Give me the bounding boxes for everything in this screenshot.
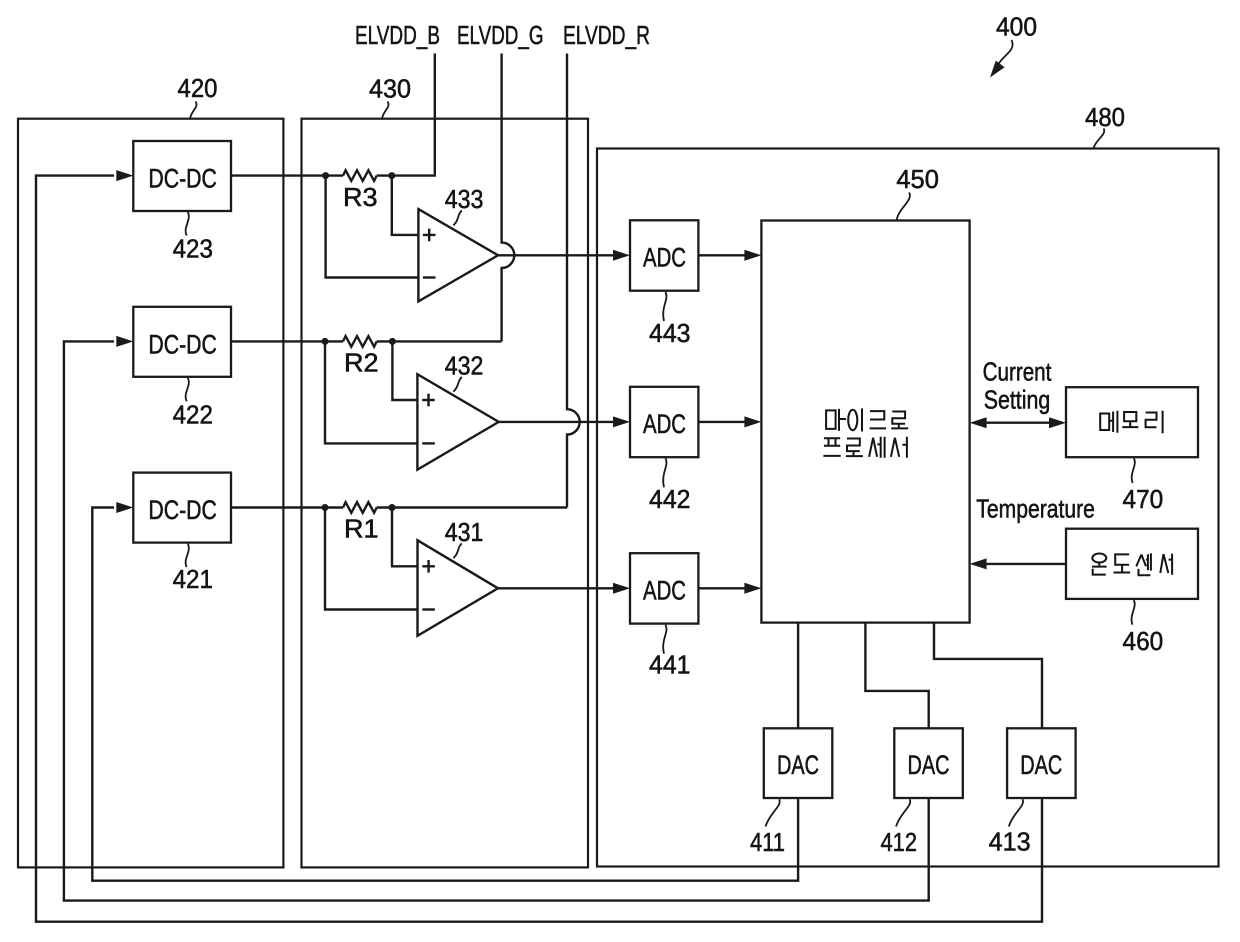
arrowhead memory link left end — [970, 417, 987, 428]
wire ADC 441 to microprocessor — [698, 587, 745, 589]
LEADER LINES — [186, 40, 1135, 827]
wire microprocessor to DAC 413 — [934, 623, 1042, 729]
svg-text:441: 441 — [649, 650, 691, 680]
microprocessor text syllable PEU — [823, 438, 840, 456]
svg-text:420: 420 — [178, 73, 218, 103]
microprocessor text syllable I — [848, 408, 862, 431]
wire row3 DC-DC 421 output to node — [231, 506, 343, 508]
svg-text:R3: R3 — [343, 182, 378, 212]
junction node R3 left — [322, 172, 329, 179]
svg-text:411: 411 — [750, 827, 785, 857]
leader label 423 — [186, 212, 189, 236]
wire ADC 443 to microprocessor — [698, 254, 745, 256]
op-amp 432 triangle — [417, 374, 498, 470]
leader label 443 — [663, 292, 666, 321]
wire feedback from DAC 411 to DC-DC 421 input — [92, 508, 798, 881]
svg-text:R2: R2 — [344, 348, 379, 378]
wire microprocessor to DAC 411 — [797, 623, 799, 729]
arrowhead into ADC 442 — [613, 416, 630, 427]
microprocessor text syllable KEU — [870, 411, 886, 428]
wire R1 left node to op-amp 431 - input — [325, 508, 418, 610]
temp sensor text syllable SEO2 — [1160, 554, 1172, 575]
microprocessor text syllable RO2 — [846, 439, 863, 457]
DAC 413 box — [1007, 728, 1076, 798]
wire op-amp 432 output to ADC 442 — [499, 421, 614, 423]
leader label 442 — [663, 458, 666, 487]
ADC 442 box — [630, 387, 698, 457]
KOREAN hand-drawn glyphs — [823, 408, 1172, 575]
svg-text:DAC: DAC — [908, 750, 950, 780]
leader label 480 — [1094, 129, 1105, 149]
arrowhead into DC-DC 422 — [116, 336, 133, 347]
svg-text:413: 413 — [989, 827, 1031, 857]
leader label 432 — [453, 377, 462, 392]
op-amp 433 plus pin mark — [423, 229, 436, 242]
leader label 412 — [896, 799, 910, 826]
svg-text:450: 450 — [896, 164, 939, 194]
svg-text:430: 430 — [369, 74, 411, 104]
leader label 411 — [766, 799, 780, 826]
op-amp 431 plus pin mark — [422, 560, 435, 573]
svg-text:ADC: ADC — [643, 575, 686, 605]
microprocessor text syllable SEO — [891, 437, 907, 458]
arrowhead into ADC 443 — [613, 250, 630, 261]
op-amp 433 triangle — [418, 209, 498, 301]
arrowhead ADC 441 into microprocessor — [744, 583, 761, 594]
svg-text:DC-DC: DC-DC — [148, 329, 217, 359]
svg-text:432: 432 — [445, 351, 484, 381]
wire microprocessor to memory 470 bidirectional shaft — [986, 422, 1050, 424]
wire R2 left node to op-amp 432 - input — [325, 341, 417, 443]
svg-text:Setting: Setting — [984, 385, 1051, 415]
op-amp 433 minus pin mark — [423, 276, 436, 278]
svg-text:Current: Current — [983, 357, 1052, 387]
junction node R1 right — [389, 504, 396, 511]
svg-text:ADC: ADC — [643, 243, 686, 273]
wire op-amp 433 output to ADC 443 — [498, 254, 613, 256]
op-amp 431 triangle — [418, 540, 499, 636]
leader label 470 — [1132, 458, 1135, 483]
wire ELVDD_R vertical with hop over 432 output — [567, 54, 580, 508]
ARROWHEADS AND DOTS — [116, 170, 1066, 594]
svg-text:412: 412 — [881, 827, 918, 857]
svg-text:470: 470 — [1123, 484, 1164, 514]
leader arrow label 400 shaft — [998, 40, 1013, 66]
svg-text:DC-DC: DC-DC — [148, 495, 217, 525]
svg-text:Temperature: Temperature — [976, 494, 1095, 524]
memory text syllable MO — [1122, 412, 1138, 427]
DAC 412 box — [894, 728, 963, 798]
junction node R2 right — [389, 338, 396, 345]
leader label 421 — [186, 544, 189, 568]
temperature sensor 460 box — [1066, 529, 1198, 599]
microprocessor text syllable MA — [826, 409, 846, 431]
microprocessor text syllable RO — [891, 412, 908, 429]
svg-text:DC-DC: DC-DC — [148, 164, 217, 194]
temp sensor text syllable DO — [1114, 554, 1131, 572]
wire row2 DC-DC 422 output to node — [231, 340, 343, 342]
wire ELVDD_G vertical with hop over 433 output — [502, 54, 515, 342]
wire R1 right node to op-amp 431 + input — [392, 508, 418, 567]
wire row1 node to ELVDD_B — [377, 54, 435, 176]
wire R2 right node to op-amp 432 + input — [392, 341, 417, 400]
wire R3 right node to op-amp 433 + input — [392, 176, 419, 235]
arrowhead memory link right end — [1049, 417, 1066, 428]
microprocessor text syllable SE — [869, 437, 885, 458]
wire row2 node to ELVDD_G junction — [377, 340, 502, 342]
resistor R1 — [343, 502, 377, 513]
wire feedback from DAC 412 to DC-DC 422 input — [64, 341, 929, 900]
op-amp 432 minus pin mark — [422, 442, 435, 444]
resistor R3 — [343, 170, 377, 181]
arrowhead of label 400 leader — [990, 61, 1005, 78]
wire feedback from DAC 413 to DC-DC 423 input — [36, 176, 1042, 922]
svg-text:DAC: DAC — [1020, 750, 1062, 780]
junction node R1 left — [322, 504, 329, 511]
ADC 441 box — [630, 553, 698, 623]
wire row1 DC-DC 423 output to node — [231, 174, 343, 176]
svg-text:ADC: ADC — [643, 409, 686, 439]
memory text syllable ME — [1100, 411, 1117, 433]
svg-text:DAC: DAC — [777, 750, 819, 780]
arrowhead into DC-DC 421 — [116, 502, 133, 513]
svg-text:ELVDD_R: ELVDD_R — [563, 20, 650, 50]
leader label 430 — [382, 102, 388, 119]
op-amp 432 plus pin mark — [422, 394, 435, 407]
wire R3 left node to op-amp 433 - input — [326, 176, 419, 278]
wire op-amp 431 output to ADC 441 — [498, 587, 614, 589]
memory 470 box — [1066, 387, 1198, 457]
arrowhead into ADC 441 — [613, 583, 630, 594]
svg-text:ELVDD_G: ELVDD_G — [457, 20, 544, 50]
temp sensor text syllable ON — [1092, 554, 1107, 575]
svg-text:433: 433 — [445, 184, 484, 214]
resistor R2 — [343, 336, 377, 347]
block 420 power converter group box — [18, 119, 283, 868]
arrowhead ADC 443 into microprocessor — [744, 250, 761, 261]
ADC 443 box — [630, 220, 698, 290]
leader label 450 — [897, 193, 910, 221]
svg-text:443: 443 — [649, 318, 691, 348]
arrowhead into DC-DC 423 — [116, 170, 133, 181]
memory text syllable RI — [1146, 411, 1163, 434]
svg-text:421: 421 — [173, 564, 213, 594]
wire row3 node to ELVDD_R junction — [377, 506, 567, 508]
leader label 433 — [453, 211, 462, 226]
leader label 431 — [453, 543, 462, 558]
svg-text:460: 460 — [1123, 626, 1164, 656]
DC-DC converter 422 box — [133, 307, 231, 377]
DAC 411 box — [764, 728, 833, 798]
junction node R2 left — [322, 338, 329, 345]
arrowhead temperature into microprocessor — [970, 558, 987, 569]
wire microprocessor to DAC 412 — [865, 623, 928, 729]
svg-text:423: 423 — [173, 234, 213, 264]
leader label 422 — [186, 378, 189, 402]
DC-DC converter 423 box — [133, 141, 231, 211]
svg-text:422: 422 — [173, 400, 213, 430]
svg-text:R1: R1 — [344, 514, 379, 544]
microprocessor U450 box — [761, 221, 969, 623]
svg-text:400: 400 — [996, 12, 1037, 42]
svg-text:480: 480 — [1085, 102, 1125, 132]
leader label 420 — [190, 102, 196, 119]
block 480 controller group box — [597, 149, 1219, 867]
temp sensor text syllable SEN — [1136, 553, 1151, 575]
arrowhead ADC 442 into microprocessor — [744, 416, 761, 427]
svg-text:ELVDD_B: ELVDD_B — [355, 20, 440, 50]
block 430 sensing group box — [302, 119, 589, 868]
leader label 441 — [663, 625, 666, 654]
wire temperature sensor 460 to microprocessor — [986, 563, 1066, 565]
junction node R3 right — [388, 172, 395, 179]
leader label 460 — [1132, 600, 1135, 625]
wire ADC 442 to microprocessor — [698, 421, 745, 423]
DC-DC converter 421 box — [133, 473, 231, 543]
leader label 413 — [1009, 799, 1023, 826]
svg-text:431: 431 — [445, 517, 484, 547]
op-amp 431 minus pin mark — [422, 608, 435, 610]
svg-text:442: 442 — [649, 484, 691, 514]
